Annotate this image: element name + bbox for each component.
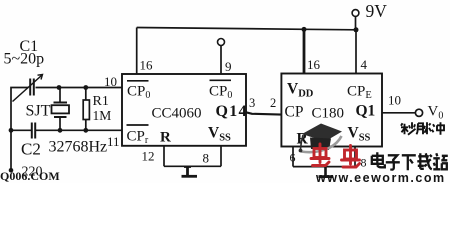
terminal pin9 CC4060 — [218, 39, 225, 75]
wire pin12 R CC4060 down — [163, 146, 165, 167]
wire output Q1 pin10 — [382, 112, 416, 114]
wire Q14 pin3 to CP pin2 — [246, 112, 281, 114]
svg-text:CP: CP — [285, 104, 304, 121]
svg-text:www.eeworm.com: www.eeworm.com — [315, 171, 446, 183]
svg-text:9: 9 — [225, 59, 232, 74]
terminal output V0 — [415, 109, 422, 116]
svg-text:VDD: VDD — [287, 81, 314, 100]
pin label CPrbar — [127, 125, 149, 146]
label 秒脉冲 second pulse (drawn strokes) — [401, 122, 444, 135]
node crystal bottom — [58, 128, 63, 133]
svg-text:12: 12 — [142, 149, 155, 164]
svg-text:Q14: Q14 — [216, 103, 248, 120]
crystal SJT — [52, 88, 70, 131]
wire pin8 C180 down — [354, 147, 356, 167]
wire top feedback rail — [137, 28, 356, 30]
svg-text:VSS: VSS — [348, 125, 371, 144]
watermark bug 1 — [311, 144, 329, 166]
watermark 电子下载站 (drawn strokes) — [372, 152, 448, 170]
svg-text:3: 3 — [249, 96, 255, 110]
svg-text:5~20p: 5~20p — [4, 51, 45, 68]
node R1 top — [83, 85, 88, 90]
svg-text:CP0: CP0 — [127, 84, 150, 102]
svg-text:Q006.COM: Q006.COM — [0, 169, 60, 183]
node 9V branch — [354, 27, 359, 32]
wire pin16 CC4060 up — [136, 28, 138, 75]
svg-text:4: 4 — [361, 57, 368, 72]
pin label CP0bar left — [127, 81, 150, 101]
wire top horizontal to pin 10 — [36, 87, 123, 89]
svg-text:C180: C180 — [312, 106, 345, 122]
svg-text:R: R — [160, 130, 171, 146]
op-amp U1 CC4060 box — [122, 74, 246, 146]
svg-text:CC4060: CC4060 — [152, 106, 202, 122]
capacitor C2 plates — [32, 123, 35, 139]
svg-text:CPE: CPE — [347, 84, 372, 102]
wire pin8 VSS CC4060 down — [220, 146, 222, 167]
svg-text:C2: C2 — [21, 140, 41, 159]
watermark bug 2 — [342, 146, 360, 168]
wire bottom horizontal — [11, 129, 31, 131]
svg-text:10: 10 — [104, 74, 117, 89]
watermark graduation cap — [299, 124, 342, 153]
svg-text:16: 16 — [307, 57, 321, 72]
svg-text:16: 16 — [140, 58, 154, 73]
pin label CP0bar right — [209, 80, 232, 101]
op-amp U2 C180 box — [281, 74, 382, 147]
svg-text:8: 8 — [361, 156, 367, 170]
node R1 bottom — [83, 128, 88, 133]
svg-text:V0: V0 — [428, 104, 444, 122]
svg-text:10: 10 — [388, 93, 401, 108]
svg-text:CPr: CPr — [127, 129, 149, 147]
wire thick to C180 pin16 — [303, 29, 306, 73]
svg-text:2: 2 — [270, 96, 276, 110]
svg-text:Q1: Q1 — [356, 103, 376, 120]
wire left vertical — [11, 88, 29, 171]
wire ground link CC4060 — [164, 165, 221, 167]
node bottom of left wire — [9, 168, 14, 173]
svg-text:CP0: CP0 — [209, 84, 232, 102]
svg-text:VSS: VSS — [208, 125, 231, 144]
svg-text:32768Hz: 32768Hz — [49, 139, 108, 156]
svg-text:6: 6 — [290, 151, 296, 165]
terminal 9V — [352, 10, 359, 28]
svg-text:SJT: SJT — [26, 103, 51, 120]
resistor R1 — [83, 88, 89, 131]
svg-text:11: 11 — [107, 134, 120, 149]
node left wire junction — [9, 128, 14, 133]
ground C180 — [319, 167, 334, 177]
node crystal top — [57, 85, 62, 90]
svg-text:R1: R1 — [93, 94, 109, 109]
svg-text:1M: 1M — [93, 108, 112, 123]
wire bottom to pin 11 — [36, 129, 122, 131]
capacitor C1 trimmer plates — [13, 75, 43, 102]
wire pin6 C180 down — [292, 147, 294, 167]
wire ground link C180 — [293, 166, 355, 168]
wire to C180 pin4 — [355, 30, 357, 74]
ground CC4060 — [182, 166, 198, 176]
svg-text:9V: 9V — [366, 1, 388, 21]
node pin16 C180 branch — [302, 27, 307, 32]
svg-text:8: 8 — [203, 151, 210, 166]
